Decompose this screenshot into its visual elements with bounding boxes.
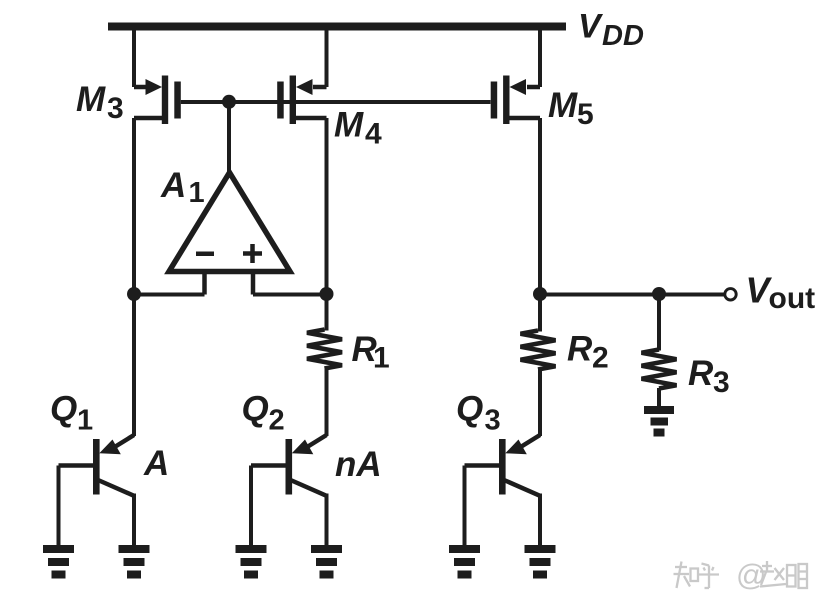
wire Vout rail bbox=[540, 293, 725, 297]
PMOS M5 bbox=[491, 76, 540, 125]
PMOS M4 bbox=[277, 76, 326, 125]
op-amp non-inverting input lead bbox=[251, 272, 256, 295]
wire gate node to op-amp output bbox=[227, 102, 231, 176]
wire M3 drain down bbox=[132, 118, 136, 295]
wire R2 to Q3 emitter bbox=[519, 369, 540, 448]
PMOS M3 bbox=[134, 76, 181, 125]
label Q1 bbox=[50, 390, 93, 437]
label R3 bbox=[688, 354, 730, 399]
wire node C to R2 bbox=[538, 295, 542, 332]
node D dot R3 tap bbox=[652, 287, 666, 301]
svg-text:Q: Q bbox=[242, 390, 269, 429]
label M5 bbox=[548, 86, 594, 131]
svg-text:R: R bbox=[688, 354, 714, 393]
svg-text:M: M bbox=[334, 106, 364, 145]
svg-text:1: 1 bbox=[77, 405, 93, 437]
ground Q1 collector bbox=[119, 545, 150, 579]
svg-text:@: @ bbox=[736, 559, 766, 592]
wire VDD to M5 source bbox=[527, 24, 540, 87]
wire M5 drain down bbox=[538, 118, 542, 295]
svg-text:A: A bbox=[143, 444, 169, 483]
svg-text:out: out bbox=[769, 282, 816, 315]
label R2 bbox=[567, 330, 609, 375]
wire node A to inverting input bbox=[134, 293, 205, 297]
watermark zhihu strokes bbox=[674, 561, 808, 588]
label M4 bbox=[334, 106, 382, 151]
op-amp inverting input lead bbox=[202, 272, 207, 295]
svg-text:R: R bbox=[567, 330, 593, 369]
wire Q1 base to ground bbox=[57, 466, 61, 547]
svg-text:3: 3 bbox=[107, 92, 124, 125]
wire node B to R1 bbox=[325, 295, 329, 331]
svg-text:DD: DD bbox=[602, 20, 644, 52]
wire R3 to ground bbox=[657, 388, 661, 407]
VDD supply rail bbox=[108, 23, 566, 31]
label Q3 bbox=[456, 390, 501, 437]
wire VDD to M4 source bbox=[313, 24, 327, 87]
wire node D to R3 bbox=[657, 295, 661, 351]
op-amp A1 bbox=[169, 173, 290, 272]
ground Q2 collector bbox=[311, 545, 342, 579]
wire M4 drain down bbox=[325, 118, 329, 295]
node A dot bbox=[127, 287, 141, 301]
ground R3 bbox=[644, 406, 674, 437]
ground Q3 base bbox=[449, 545, 480, 579]
svg-text:Q: Q bbox=[50, 390, 77, 429]
wire node B to non-inverting input bbox=[253, 293, 327, 297]
label VDD bbox=[578, 8, 644, 53]
ground Q2 base bbox=[236, 545, 267, 579]
BJT Q1 bbox=[59, 439, 135, 496]
svg-text:1: 1 bbox=[373, 342, 390, 375]
gate node dot bbox=[222, 95, 236, 109]
BJT Q3 bbox=[465, 439, 541, 496]
svg-text:4: 4 bbox=[365, 118, 382, 151]
svg-text:3: 3 bbox=[713, 366, 730, 399]
label M3 bbox=[76, 80, 124, 125]
svg-text:5: 5 bbox=[577, 98, 594, 131]
wire Q1 collector to ground bbox=[132, 494, 136, 547]
svg-text:Q: Q bbox=[456, 390, 483, 429]
ground Q1 base bbox=[43, 545, 74, 579]
node B dot bbox=[320, 287, 334, 301]
svg-text:2: 2 bbox=[269, 405, 285, 437]
svg-text:nA: nA bbox=[335, 445, 382, 484]
svg-text:3: 3 bbox=[485, 405, 501, 437]
label Q2 bbox=[242, 390, 285, 437]
svg-text:M: M bbox=[76, 80, 106, 119]
wire node A down to Q1 emitter bbox=[113, 295, 134, 449]
svg-text:1: 1 bbox=[189, 177, 205, 209]
wire Q2 collector to ground bbox=[325, 494, 329, 547]
wire Q3 collector to ground bbox=[538, 494, 542, 547]
wire Q3 base to ground bbox=[463, 466, 467, 547]
svg-text:A: A bbox=[160, 166, 186, 205]
BJT Q2 bbox=[251, 439, 327, 496]
svg-text:V: V bbox=[578, 8, 604, 46]
node C dot M5 drain bbox=[533, 287, 547, 301]
resistor R2 bbox=[521, 331, 556, 370]
wire R1 to Q2 emitter bbox=[306, 368, 327, 448]
resistor R3 bbox=[642, 350, 677, 389]
label R1 bbox=[352, 330, 390, 375]
svg-text:2: 2 bbox=[592, 342, 609, 375]
ground Q3 collector bbox=[525, 545, 556, 579]
wire VDD to M3 source bbox=[134, 24, 147, 87]
resistor R1 bbox=[307, 330, 342, 369]
svg-text:M: M bbox=[548, 86, 578, 125]
Vout terminal circle bbox=[725, 289, 736, 300]
label A1 bbox=[160, 166, 205, 209]
common gate wire M3-M4-M5 bbox=[181, 100, 491, 104]
wire Q2 base to ground bbox=[249, 466, 253, 547]
label Vout bbox=[746, 270, 816, 316]
